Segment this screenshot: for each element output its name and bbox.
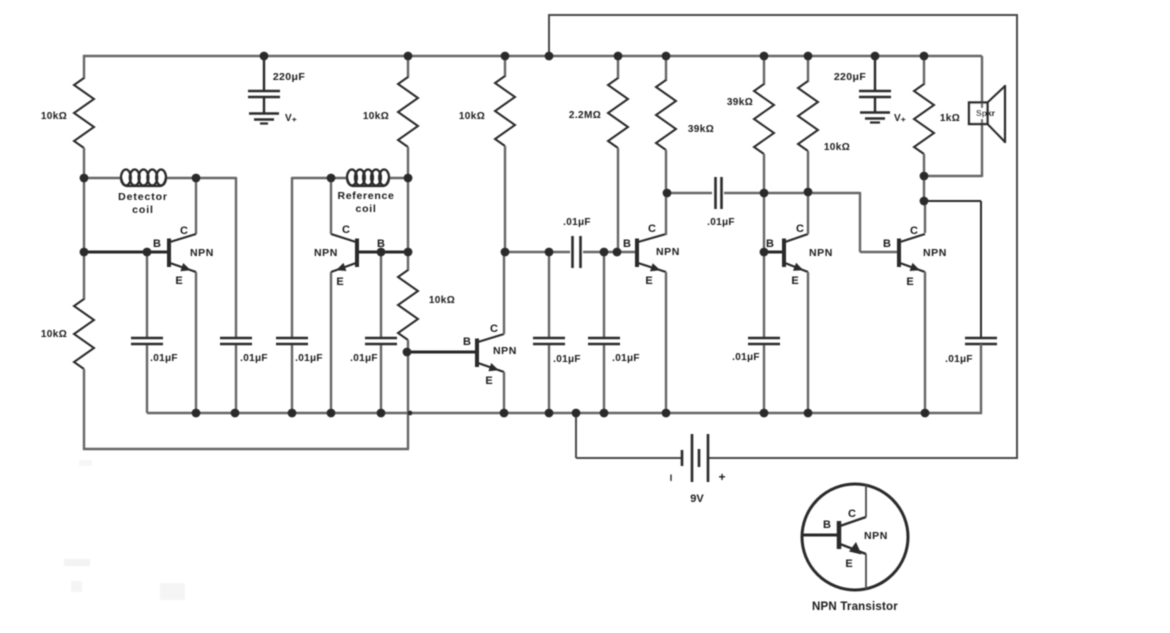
svg-text:10kΩ: 10kΩ	[824, 142, 850, 153]
svg-text:B: B	[377, 238, 385, 250]
svg-text:E: E	[336, 276, 343, 288]
svg-text:C: C	[648, 223, 656, 235]
svg-text:B: B	[623, 238, 631, 250]
svg-text:V₊: V₊	[894, 113, 906, 124]
svg-text:.01μF: .01μF	[732, 352, 760, 363]
svg-text:2.2MΩ: 2.2MΩ	[569, 110, 601, 121]
svg-text:.01μF: .01μF	[612, 353, 640, 364]
svg-text:Detector: Detector	[118, 191, 168, 203]
svg-text:220μF: 220μF	[273, 71, 306, 83]
svg-text:10kΩ: 10kΩ	[363, 111, 389, 122]
svg-text:NPN: NPN	[864, 530, 888, 542]
svg-text:C: C	[490, 323, 498, 335]
svg-text:10kΩ: 10kΩ	[41, 329, 67, 340]
svg-text:NPN: NPN	[190, 247, 214, 259]
svg-text:.01μF: .01μF	[295, 353, 323, 364]
svg-text:NPN: NPN	[923, 247, 947, 259]
svg-text:220μF: 220μF	[834, 71, 867, 83]
svg-text:C: C	[180, 225, 188, 237]
svg-text:B: B	[463, 336, 471, 348]
svg-text:39kΩ: 39kΩ	[688, 124, 714, 135]
svg-text:E: E	[175, 275, 182, 287]
svg-text:E: E	[845, 558, 852, 570]
svg-text:C: C	[342, 224, 350, 236]
svg-text:E: E	[791, 275, 798, 287]
svg-text:.01μF: .01μF	[150, 353, 178, 364]
svg-text:NPN: NPN	[493, 345, 517, 357]
svg-text:9V: 9V	[690, 493, 704, 505]
svg-text:NPN: NPN	[314, 247, 338, 259]
svg-text:Reference: Reference	[337, 190, 394, 202]
svg-text:coil: coil	[132, 204, 154, 216]
svg-text:E: E	[485, 375, 492, 387]
svg-text:.01μF: .01μF	[707, 217, 735, 228]
svg-text:10kΩ: 10kΩ	[41, 111, 67, 122]
svg-text:.01μF: .01μF	[240, 353, 268, 364]
svg-text:.01μF: .01μF	[945, 354, 973, 365]
svg-text:.01μF: .01μF	[553, 354, 581, 365]
svg-text:.01μF: .01μF	[563, 217, 591, 228]
svg-text:NPN: NPN	[656, 246, 680, 258]
svg-text:C: C	[910, 225, 918, 237]
svg-text:NPN Transistor: NPN Transistor	[812, 601, 898, 613]
svg-text:B: B	[153, 238, 161, 250]
svg-text:E: E	[645, 275, 652, 287]
svg-text:E: E	[906, 276, 913, 288]
svg-text:1kΩ: 1kΩ	[940, 113, 960, 124]
svg-text:.01μF: .01μF	[350, 353, 378, 364]
svg-text:10kΩ: 10kΩ	[459, 111, 485, 122]
svg-text:C: C	[796, 223, 804, 235]
svg-text:I: I	[670, 473, 673, 483]
svg-text:+: +	[718, 470, 725, 484]
svg-text:C: C	[848, 508, 856, 520]
svg-text:V₊: V₊	[285, 113, 297, 124]
svg-text:Spkr: Spkr	[976, 108, 996, 118]
svg-text:B: B	[766, 238, 774, 250]
svg-text:39kΩ: 39kΩ	[727, 97, 753, 108]
svg-text:B: B	[883, 238, 891, 250]
svg-text:coil: coil	[356, 203, 377, 215]
svg-text:B: B	[823, 519, 831, 531]
svg-text:10kΩ: 10kΩ	[429, 295, 455, 306]
svg-text:NPN: NPN	[809, 247, 833, 259]
